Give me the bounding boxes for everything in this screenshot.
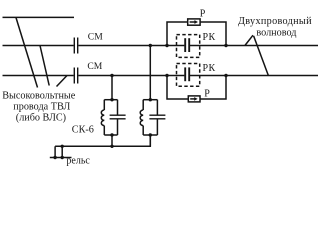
svg-text:рельс: рельс — [66, 155, 90, 166]
arrester P2 arrow — [190, 98, 195, 100]
lower arrester loop: right side — [200, 76, 226, 100]
wire: riser from line 3 to tank 1 — [111, 76, 113, 100]
svg-text:волновод: волновод — [256, 27, 296, 38]
arrester P1 box — [188, 19, 200, 25]
node: rail right — [61, 156, 64, 159]
node: tank1 top — [110, 98, 113, 101]
capacitor CM2 plates (coupling capacitor on line 3) — [74, 68, 77, 84]
node: tank1 drop on bottom wire — [110, 145, 113, 148]
wire: high-voltage line 1 (top phase wire) — [3, 16, 75, 18]
leader line to waveguide wire 2 — [245, 35, 253, 45]
inductor L2 (coil, tank 2) — [140, 110, 143, 126]
tank circuit SK-6 #2: frame — [143, 99, 157, 101]
node: line2/upper loop right — [224, 44, 227, 47]
wire: riser from line 2 to tank 2 (crosses line 3) — [149, 46, 151, 100]
svg-text:Высоковольтные: Высоковольтные — [2, 90, 76, 101]
node: line3/tank1 riser — [110, 74, 113, 77]
wire: bottom common wire — [55, 135, 150, 146]
leader line to line 1 — [16, 18, 38, 88]
wire: line 2 middle segment — [78, 45, 184, 47]
wire: tank 2 drop to bottom wire — [149, 135, 151, 146]
capacitor C2 plates (tank 2) — [149, 115, 165, 119]
tank circuit SK-6 #1: frame — [104, 99, 117, 101]
capacitor RK1 plates — [185, 38, 189, 52]
lower arrester loop: left riser — [167, 76, 188, 100]
wire: line 3 left segment — [3, 75, 74, 77]
arrester P2 box — [188, 96, 200, 102]
svg-text:Р: Р — [204, 89, 210, 100]
capacitor C1 plates (tank 1) — [110, 115, 126, 119]
node: tank1 bottom — [110, 133, 113, 136]
rail connection symbol — [50, 157, 72, 159]
leader line to waveguide wire 3 — [254, 36, 269, 76]
wire: tank 1 drop to bottom wire — [111, 135, 113, 146]
node: bottom wire left end — [61, 145, 64, 148]
wire: line 2 left segment — [3, 45, 74, 47]
node: rail left — [53, 156, 56, 159]
inductor L1 (coil, tank 1) — [101, 110, 104, 126]
node: line2/tank2 riser — [149, 44, 152, 47]
svg-text:СК-6: СК-6 — [72, 124, 94, 135]
node: tank2 top — [149, 98, 152, 101]
svg-text:РК: РК — [203, 32, 216, 43]
wire: line 2 right segment — [190, 45, 318, 47]
svg-text:(либо ВЛС): (либо ВЛС) — [16, 113, 66, 124]
node: line2/upper loop left — [165, 44, 168, 47]
arrester P1 arrow — [190, 21, 195, 23]
svg-text:РК: РК — [203, 63, 216, 74]
svg-text:СМ: СМ — [87, 61, 102, 72]
wire: line 3 middle segment — [78, 75, 184, 77]
leader line to line 2 — [40, 46, 49, 86]
svg-text:СМ: СМ — [88, 32, 103, 43]
svg-text:Двухпроводный: Двухпроводный — [238, 16, 312, 27]
svg-text:Р: Р — [200, 9, 206, 20]
node: line3/lower loop left — [165, 74, 168, 77]
capacitor RK2 plates — [185, 67, 189, 81]
leader line to line 3 — [57, 76, 68, 87]
node: line3/lower loop right — [224, 74, 227, 77]
node: tank2 bottom — [149, 133, 152, 136]
dashed box of RK2 (blocking capacitor unit, line 3) — [177, 64, 200, 87]
upper arrester loop: right side — [200, 22, 226, 46]
wire: line 3 right segment — [190, 75, 318, 77]
upper arrester loop: left riser — [167, 22, 188, 46]
capacitor CM1 plates (coupling capacitor on line 2) — [74, 38, 77, 54]
dashed box of RK1 (blocking capacitor unit, line 2) — [177, 35, 200, 58]
svg-text:провода ТВЛ: провода ТВЛ — [13, 101, 70, 112]
